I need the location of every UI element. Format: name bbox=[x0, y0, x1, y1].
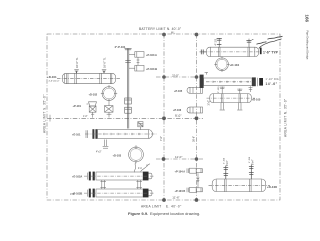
E-103 top nozzle bbox=[205, 72, 208, 74]
svg-text:+D-104: +D-104 bbox=[230, 63, 240, 67]
vessel D-104 (top right drum) bbox=[203, 47, 262, 56]
D-105 legs bbox=[220, 103, 243, 110]
nozzle tag 1 on D-101 bbox=[74, 57, 79, 74]
label D-105 bbox=[252, 98, 261, 102]
svg-text:Pipe Drafting and Design: Pipe Drafting and Design bbox=[306, 31, 310, 60]
label P-106 bbox=[173, 109, 182, 112]
vertical vessel C-103 (circle, right) bbox=[214, 56, 229, 72]
svg-text:2l'-0": 2l'-0" bbox=[172, 73, 179, 77]
D-104 top nozzle 1 bbox=[215, 38, 221, 47]
label P-104B bbox=[175, 190, 186, 193]
label C-103 bbox=[230, 63, 240, 67]
battery limit label N bbox=[139, 27, 182, 35]
connector between P-104A/B bbox=[197, 173, 199, 187]
svg-text:166: 166 bbox=[305, 15, 310, 23]
svg-text:+P-105: +P-105 bbox=[174, 90, 183, 93]
pump P-101 (trapezoid + box, left) bbox=[87, 102, 97, 118]
pump P-102 under circle (box with x) bbox=[105, 100, 114, 117]
svg-text:4"-150: 4"-150 bbox=[215, 38, 217, 45]
svg-text:AREA LIMIT: AREA LIMIT bbox=[141, 205, 162, 209]
area limit label S (left) bbox=[43, 94, 47, 133]
pump P-103B bbox=[129, 65, 144, 71]
D-104 right label (dark) bbox=[260, 48, 279, 55]
running head Pipe Drafting and Design bbox=[306, 31, 310, 60]
svg-text:3"-150: 3"-150 bbox=[224, 157, 226, 164]
page number 166 bbox=[305, 15, 310, 23]
svg-text:1'-0": 1'-0" bbox=[83, 116, 88, 118]
D-104 left stub to gridline bbox=[200, 50, 207, 55]
svg-text:11'-6": 11'-6" bbox=[172, 195, 179, 199]
svg-text:+D-102: +D-102 bbox=[89, 93, 98, 97]
vertical vessel C-102 (circle plan) bbox=[129, 145, 144, 163]
svg-text:+D-105: +D-105 bbox=[252, 98, 261, 102]
label D-106 bbox=[267, 185, 278, 189]
svg-text:+D-101: +D-101 bbox=[47, 75, 57, 79]
svg-text:+D-103: +D-103 bbox=[113, 154, 122, 158]
inline box 2 on riser bbox=[125, 107, 132, 113]
pump P-105 (right of gridline, upper) bbox=[187, 87, 203, 93]
gridline col 1 bbox=[162, 33, 166, 202]
vessel D-101 (horizontal drum, plan) bbox=[57, 73, 120, 84]
svg-text:1'-10" DIA: 1'-10" DIA bbox=[266, 78, 279, 81]
E-101 top nozzle w/ hatch box bbox=[138, 122, 143, 130]
svg-text:+E-102B: +E-102B bbox=[72, 192, 82, 196]
svg-text:1'-6" TYP: 1'-6" TYP bbox=[263, 51, 279, 55]
caption Figure 9-9 bbox=[128, 211, 200, 216]
vertical vessel C-101 (circle plan) bbox=[101, 85, 117, 101]
svg-text:11'-0": 11'-0" bbox=[175, 155, 182, 159]
connector pipes between E-102A/B right bbox=[136, 180, 142, 189]
svg-text:BATTERY LIMIT N. 40'-0": BATTERY LIMIT N. 40'-0" bbox=[139, 27, 182, 31]
D-104 leader squiggle bbox=[257, 36, 283, 48]
label E-103 bbox=[266, 78, 279, 86]
D-105 nozzle 1 bbox=[218, 86, 225, 94]
exchanger E-102A (upper of pair) bbox=[84, 172, 154, 181]
svg-text:+P-103 A: +P-103 A bbox=[146, 53, 157, 57]
svg-text:AREA LIMIT S. 35'-0": AREA LIMIT S. 35'-0" bbox=[43, 94, 47, 133]
label P-103A bbox=[146, 53, 157, 57]
D-104 top nozzle 2 bbox=[246, 39, 253, 48]
D-106 nozzle assembly 2 bbox=[249, 156, 255, 179]
svg-text:16'-0" TL: 16'-0" TL bbox=[75, 57, 79, 68]
svg-text:Figure 9-9.: Figure 9-9. bbox=[128, 211, 148, 216]
pump P-103A bbox=[129, 52, 144, 58]
label P-105 bbox=[174, 90, 183, 93]
exchanger E-103 (right) bbox=[200, 75, 263, 92]
exchanger E-102B (lower of pair) bbox=[84, 189, 154, 198]
nozzle tag 2 on D-101 bbox=[102, 57, 107, 74]
E-101 bottom stub bbox=[96, 140, 108, 154]
svg-text:7'-6": 7'-6" bbox=[160, 136, 163, 141]
svg-text:+E-101: +E-101 bbox=[72, 133, 81, 137]
svg-text:M.L.: M.L. bbox=[171, 32, 176, 35]
leader above E-102 pair bbox=[141, 164, 151, 172]
area limit label N (right) bbox=[284, 98, 288, 137]
svg-text:+P-104 A: +P-104 A bbox=[175, 170, 186, 173]
dim 11'-6" bottom bbox=[70, 192, 180, 199]
D-106 nozzle assembly 1 bbox=[223, 157, 229, 179]
svg-text:14'-6": 14'-6" bbox=[266, 82, 278, 86]
exchanger E-101 (middle) bbox=[85, 129, 157, 139]
svg-text:3"-150: 3"-150 bbox=[218, 86, 220, 93]
svg-text:38'-6": 38'-6" bbox=[193, 136, 196, 142]
svg-text:4'-6"x14'-0": 4'-6"x14'-0" bbox=[49, 81, 60, 83]
label D-101 bbox=[47, 75, 60, 83]
leader below C-102 bbox=[134, 163, 142, 173]
label C-102 bbox=[113, 154, 122, 158]
svg-text:9'-0": 9'-0" bbox=[175, 114, 181, 118]
gridline row B bbox=[47, 114, 203, 121]
pump P-106 (right of gridline, lower) bbox=[187, 107, 203, 113]
svg-text:+P-104 B: +P-104 B bbox=[175, 190, 186, 193]
label P-104A bbox=[175, 170, 186, 173]
E-101 right tag bbox=[160, 136, 196, 142]
vessel D-105 (right, small drum) bbox=[207, 94, 256, 103]
D-105 nozzle 2 bbox=[237, 89, 242, 94]
svg-text:Equipment location drawing.: Equipment location drawing. bbox=[150, 211, 200, 216]
area limit label E (bottom) bbox=[141, 205, 182, 209]
label P-101 bbox=[73, 104, 88, 118]
svg-text:+P-106: +P-106 bbox=[173, 109, 182, 112]
connector between P-103A/B bbox=[137, 57, 140, 65]
svg-text:16'-0" TL: 16'-0" TL bbox=[102, 57, 106, 68]
vessel D-106 (bottom right drum) bbox=[209, 179, 271, 192]
tag between P-105/P-106 bbox=[208, 100, 211, 106]
svg-text:+P-103 B: +P-103 B bbox=[146, 67, 157, 71]
pump P-104B (on gridline) bbox=[187, 187, 202, 192]
label E-102A bbox=[72, 175, 82, 179]
svg-text:3"-150: 3"-150 bbox=[249, 156, 251, 163]
svg-text:4"-P-101: 4"-P-101 bbox=[115, 45, 126, 49]
label E-101 bbox=[72, 133, 81, 137]
gridline row A bbox=[156, 73, 203, 78]
svg-text:4'-0: 4'-0 bbox=[138, 168, 142, 170]
pump P-104A (on gridline) bbox=[187, 168, 202, 173]
area limit border bbox=[47, 34, 280, 200]
label P-103B bbox=[146, 67, 157, 71]
label C-101 bbox=[89, 93, 98, 97]
svg-text:+E-102A: +E-102A bbox=[72, 175, 82, 179]
svg-text:6"x4": 6"x4" bbox=[252, 159, 255, 165]
inline box 1 on riser bbox=[125, 98, 132, 104]
svg-text:AREA LIMIT N. 35'-0": AREA LIMIT N. 35'-0" bbox=[284, 98, 288, 137]
pipe riser line bbox=[125, 48, 132, 128]
svg-text:+D-106: +D-106 bbox=[267, 185, 278, 189]
label E-102B bbox=[72, 192, 82, 196]
connector pipes between E-102A/B left bbox=[100, 180, 106, 189]
svg-text:6"x4": 6"x4" bbox=[226, 160, 229, 166]
gridline col 2 bbox=[195, 33, 199, 202]
gridline row C bbox=[156, 155, 203, 161]
svg-text:4"x3": 4"x3" bbox=[96, 152, 102, 154]
svg-text:+P-101: +P-101 bbox=[73, 104, 82, 108]
pipe label bbox=[115, 45, 126, 49]
svg-text:E. 40'-0": E. 40'-0" bbox=[166, 205, 182, 209]
